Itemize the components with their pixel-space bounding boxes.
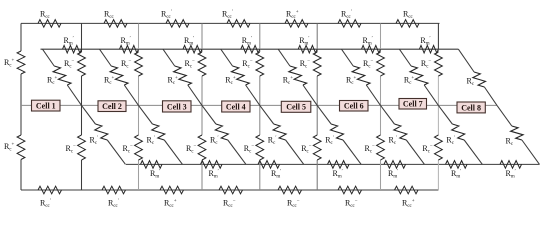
resistor Rm bottom 3 (258, 161, 280, 169)
label Rc+ upper diagonal 1 (47, 76, 58, 87)
svg-text:Cell 2: Cell 2 (102, 102, 122, 111)
wire bottom busbar rail (21, 189, 438, 191)
label Rc lower diagonal 3 (210, 136, 219, 147)
cell U2 box Cell 2 (98, 101, 126, 112)
resistor Rc- upper vertical 1 (78, 52, 86, 76)
resistor Rcc bottom 7 (395, 186, 419, 194)
label Rc- lower vertical 6 (365, 144, 376, 155)
label Rc- upper vertical 4 (242, 59, 253, 70)
resistor Rm top 6 (362, 45, 381, 53)
resistor Rc lower diagonal 5 (331, 124, 344, 140)
label Rc- lower vertical 3 (186, 144, 197, 155)
label Rm bottom 3 (271, 169, 281, 180)
label Rcc bottom 5 (287, 199, 300, 210)
label Rcc bottom 3 (164, 199, 177, 210)
resistor Rc+ upper diagonal 2 (110, 66, 128, 85)
label Rc lower right diagonal (506, 137, 514, 148)
label Rc- left edge lower (4, 142, 15, 153)
label Rc lower diagonal 5 (325, 136, 334, 147)
label Rcc top 7 (403, 10, 414, 21)
resistor Rc lower diagonal 6 (394, 124, 407, 140)
resistor Rc+ upper diagonal 5 (289, 66, 307, 85)
resistor Rcc top 1 (38, 20, 61, 28)
svg-text:Cell 8: Cell 8 (461, 103, 481, 112)
label Rcc bottom 7 (402, 199, 415, 210)
wire junction vertical 2 (138, 23, 140, 190)
wire junction vertical 6 (380, 23, 382, 190)
resistor Rc lower right diagonal (511, 126, 523, 140)
wire junction vertical 1 (81, 23, 83, 190)
wire diagonal 7 (399, 49, 482, 164)
label Rc- upper vertical 7 (421, 59, 432, 70)
label Rm top 4 (242, 36, 252, 47)
resistor Rm top 1 (63, 45, 82, 53)
resistor Rm top 2 (120, 45, 139, 53)
resistor Rm bottom 4 (328, 161, 350, 169)
resistor Rc- upper vertical 4 (256, 52, 264, 76)
resistor Rc- upper vertical 2 (135, 52, 143, 76)
wire right terminal diagonal (458, 49, 539, 164)
resistor Rc+ upper diagonal 7 (410, 66, 428, 85)
svg-text:Cell 3: Cell 3 (167, 102, 187, 111)
label Rc- lower vertical 7 (422, 144, 433, 155)
resistor Rc+ upper diagonal 1 (53, 66, 71, 85)
label Rc+ upper diagonal 7 (404, 76, 415, 87)
label Rcc bottom 4 (223, 199, 236, 210)
resistor Rcc bottom 3 (160, 186, 184, 194)
resistor Rc lower diagonal 7 (452, 124, 465, 140)
svg-text:Cell 6: Cell 6 (344, 101, 364, 110)
label Rc- lower vertical 1 (66, 144, 77, 155)
resistor Rm bottom 1 (141, 161, 163, 169)
label Rcc top 2 (104, 10, 115, 21)
label Rc- upper vertical 3 (185, 59, 196, 70)
wire diagonal 1 (43, 49, 126, 164)
label Rc- upper vertical 1 (64, 59, 75, 70)
label Rc lower diagonal 7 (446, 136, 455, 147)
resistor Rc lower diagonal 2 (152, 124, 165, 140)
label Rc- upper vertical 6 (363, 59, 374, 70)
wire top Rm rail (41, 48, 459, 50)
resistor Rc upper right diagonal (473, 72, 486, 87)
label Rc- lower vertical 4 (244, 144, 255, 155)
label Rc lower diagonal 2 (147, 136, 156, 147)
label Rm bottom 1 (150, 169, 160, 180)
label Rc lower diagonal 6 (389, 136, 398, 147)
svg-text:Cell 7: Cell 7 (403, 99, 423, 108)
resistor Rc+ upper diagonal 3 (174, 66, 192, 85)
resistor Rc lower diagonal 1 (95, 124, 108, 140)
resistor Rc lower diagonal 4 (273, 124, 286, 140)
label Rc+ left edge upper (4, 58, 15, 69)
resistor Rcc bottom 2 (102, 186, 126, 194)
svg-text:Cell 5: Cell 5 (286, 103, 306, 112)
resistor Rm top 7 (419, 45, 438, 53)
resistor Rcc bottom 4 (219, 186, 243, 194)
resistor Rcc bottom 1 (38, 186, 62, 194)
wire diagonal 4 (221, 49, 304, 164)
resistor Rcc top 7 (396, 20, 419, 28)
resistor Rm top 4 (241, 45, 260, 53)
cell U4 box Cell 4 (222, 101, 250, 112)
label Rcc top 4 (222, 10, 233, 21)
label Rm top 5 (299, 36, 309, 47)
label Rcc top 3 (161, 10, 172, 21)
resistor Rm bottom 6 (446, 161, 468, 169)
resistor Rc- upper vertical 6 (377, 52, 385, 76)
svg-text:Cell 1: Cell 1 (36, 101, 56, 110)
cell U5 box Cell 5 (281, 101, 311, 112)
label Rm top 1 (64, 36, 74, 47)
resistor Rc- upper vertical 7 (435, 52, 443, 76)
label Rm bottom 2 (209, 169, 219, 180)
label Rc- upper vertical 2 (121, 59, 132, 70)
label Rc- lower vertical 5 (301, 144, 312, 155)
resistor Rc lower diagonal 3 (215, 124, 228, 140)
label Rc upper right diagonal (467, 77, 475, 88)
label Rm top 7 (420, 36, 430, 47)
resistor Rm bottom 7 (500, 161, 522, 169)
cell U1 box Cell 1 (32, 100, 61, 111)
resistor Rcc bottom 6 (338, 186, 362, 194)
wire junction vertical 3 (201, 23, 203, 190)
resistor Rm bottom 5 (384, 161, 406, 169)
wire diagonal 5 (278, 49, 361, 164)
resistor Rc- lower vertical 1 (78, 135, 86, 160)
resistor Rc- lower vertical 5 (313, 135, 321, 160)
wire junction vertical 7 (437, 23, 439, 190)
label Rm bottom 4 (333, 169, 343, 180)
wire junction vertical 5 (316, 23, 318, 190)
label Rc+ upper diagonal 4 (225, 76, 236, 87)
label Rcc bottom 2 (108, 199, 119, 210)
resistor Rc- upper vertical 3 (198, 52, 206, 76)
label Rcc top 6 (341, 10, 352, 21)
wire diagonal 3 (163, 49, 246, 164)
label Rc+ upper diagonal 3 (168, 76, 179, 87)
resistor Rc- lower vertical 3 (198, 135, 206, 160)
svg-text:Cell 4: Cell 4 (226, 102, 246, 111)
wire bottom Rm rail (126, 163, 540, 165)
resistor Rc- upper vertical 5 (313, 52, 321, 76)
label Rm top 3 (184, 36, 194, 47)
label Rc lower diagonal 1 (90, 136, 99, 147)
label Rc- lower vertical 2 (123, 144, 134, 155)
resistor Rcc bottom 5 (278, 186, 302, 194)
resistor Rc- lower vertical 2 (135, 135, 143, 160)
resistor Rc- lower vertical 4 (256, 135, 264, 160)
cell U8 box Cell 8 (457, 102, 485, 113)
label Rm top 6 (363, 36, 373, 47)
label Rcc top 5 (286, 10, 299, 21)
wire junction vertical 4 (259, 23, 261, 190)
label Rc+ upper diagonal 2 (104, 76, 115, 87)
resistor Rc- lower vertical 7 (435, 135, 443, 160)
resistor Rcc top 2 (104, 20, 127, 28)
resistor Rm top 3 (183, 45, 202, 53)
label Rm top 2 (121, 36, 131, 47)
label Rm bottom 5 (388, 169, 398, 180)
label Rc+ upper diagonal 6 (346, 76, 357, 87)
label Rc lower diagonal 4 (268, 136, 277, 147)
cell U6 box Cell 6 (340, 101, 369, 112)
resistor Rc+ left edge upper (17, 51, 25, 74)
label Rcc top 1 (40, 10, 51, 21)
cell U7 box Cell 7 (399, 99, 427, 110)
resistor Rcc top 5 (285, 20, 308, 28)
resistor Rcc top 6 (338, 20, 361, 28)
wire top busbar rail (21, 22, 440, 24)
resistor Rc- lower vertical 6 (377, 135, 385, 160)
resistor Rc+ upper diagonal 6 (352, 66, 370, 85)
wire cell series line (21, 104, 497, 106)
resistor Rm bottom 2 (201, 161, 223, 169)
resistor Rc+ upper diagonal 4 (231, 66, 249, 85)
label Rm bottom 6 (451, 169, 461, 180)
label Rcc bottom 6 (345, 199, 358, 210)
wire diagonal 6 (342, 49, 425, 164)
resistor Rm top 5 (298, 45, 317, 53)
wire diagonal 2 (100, 49, 183, 164)
label Rc+ upper diagonal 5 (283, 76, 294, 87)
resistor Rcc top 4 (227, 20, 250, 28)
label Rm bottom 7 (506, 169, 516, 180)
wire left edge vertical (20, 23, 22, 190)
label Rcc bottom 1 (40, 199, 51, 210)
resistor Rcc top 3 (166, 20, 189, 28)
label Rc- upper vertical 5 (300, 59, 311, 70)
cell U3 box Cell 3 (163, 101, 192, 112)
resistor Rc- left edge lower (17, 135, 25, 160)
